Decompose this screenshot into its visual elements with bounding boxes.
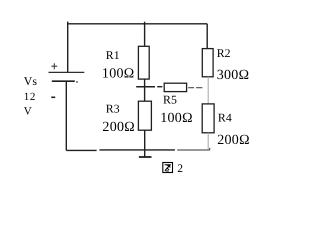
svg-text:100Ω: 100Ω (160, 111, 193, 126)
wire right upper vertical (206, 24, 208, 49)
wire R3 bottom lead (144, 130, 146, 157)
svg-text:300Ω: 300Ω (217, 68, 250, 83)
resistor R1 (138, 46, 149, 79)
ground bar (139, 156, 152, 158)
polarity + (51, 63, 57, 69)
svg-text:200Ω: 200Ω (217, 133, 250, 148)
wire R1 bottom lead to node (144, 79, 146, 101)
svg-text:2: 2 (177, 163, 183, 175)
svg-text:R4: R4 (218, 110, 232, 124)
wire R1 top lead (144, 22, 146, 47)
wire top horizontal (68, 23, 208, 25)
resistor R3 (138, 101, 151, 130)
resistor R2 (202, 49, 213, 77)
svg-text:12: 12 (24, 91, 36, 103)
svg-text:100Ω: 100Ω (102, 67, 135, 82)
wire left lower vertical (65, 81, 67, 150)
wire R2 to R4 light lead (207, 77, 209, 104)
wire R4 bottom light lead (207, 133, 209, 150)
svg-text:R2: R2 (217, 46, 231, 60)
wire bottom left segment (66, 149, 96, 151)
resistor R5 (164, 83, 186, 91)
polarity - (51, 96, 55, 98)
resistor R4 (202, 104, 214, 133)
wire bottom far right segment (177, 148, 209, 151)
svg-text:R5: R5 (163, 92, 177, 106)
wire R5 right dashed lead (188, 87, 202, 89)
caption 图 glyph drawn (163, 163, 173, 173)
svg-text:R3: R3 (106, 101, 120, 115)
wire R5 left lead (157, 86, 162, 88)
wire bottom right segment (99, 149, 174, 151)
battery Vs negative plate (52, 80, 78, 83)
battery Vs positive plate (49, 71, 85, 73)
node junction tick (136, 86, 155, 88)
svg-text:R1: R1 (106, 48, 120, 62)
svg-text:200Ω: 200Ω (102, 120, 135, 135)
svg-text:Vs: Vs (24, 74, 38, 88)
svg-text:V: V (24, 106, 32, 118)
wire left upper vertical (67, 22, 69, 73)
